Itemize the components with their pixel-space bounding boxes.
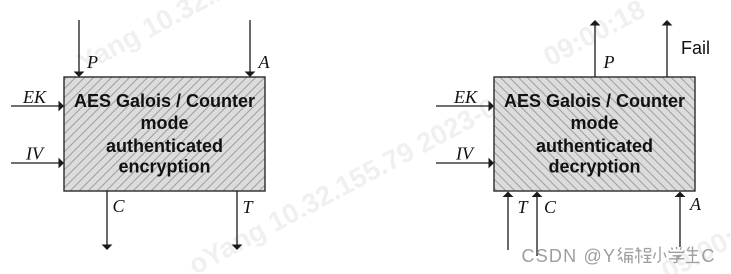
- svg-text:IV: IV: [455, 144, 475, 164]
- arrow IV input (right box): [436, 158, 494, 169]
- svg-text:authenticated: authenticated: [536, 136, 653, 156]
- svg-text:C: C: [113, 196, 126, 216]
- arrow IV input (left box): [11, 158, 64, 169]
- svg-text:T: T: [518, 197, 530, 217]
- arrow P input (left box top): [74, 20, 85, 77]
- arrow T input (right box bottom, upward): [503, 192, 514, 251]
- svg-text:09:00:18: 09:00:18: [538, 0, 650, 72]
- svg-text:P: P: [603, 52, 615, 72]
- svg-text:CSDN @Y: CSDN @Y: [522, 246, 617, 266]
- CSDN watermark hanzi xiao: [654, 247, 667, 263]
- svg-text:authenticated: authenticated: [106, 136, 223, 156]
- svg-text:mode: mode: [140, 113, 188, 133]
- svg-text:AES Galois / Counter: AES Galois / Counter: [74, 91, 255, 111]
- arrow A input (right box bottom, upward): [675, 192, 686, 248]
- CSDN watermark hanzi bian: [618, 248, 634, 264]
- box U2 AES-GCM decryption: [494, 77, 695, 191]
- arrow T output (left box bottom): [232, 191, 243, 250]
- arrow A input (left box top): [245, 20, 256, 77]
- svg-text:mode: mode: [570, 113, 618, 133]
- svg-text:EK: EK: [22, 87, 47, 107]
- arrow EK input (left box): [11, 101, 64, 112]
- CSDN watermark hanzi cheng: [635, 248, 651, 264]
- svg-text:EK: EK: [453, 87, 478, 107]
- svg-text:encryption: encryption: [118, 157, 210, 177]
- CSDN watermark hanzi sheng: [686, 247, 700, 263]
- arrow P output (right box top, upward): [590, 20, 601, 77]
- box U1 AES-GCM encryption: [64, 77, 265, 191]
- svg-text:AES Galois / Counter: AES Galois / Counter: [504, 91, 685, 111]
- svg-text:decryption: decryption: [548, 157, 640, 177]
- svg-text:IV: IV: [25, 144, 45, 164]
- svg-text:T: T: [243, 197, 255, 217]
- svg-text:09:00:1: 09:00:1: [656, 214, 731, 274]
- svg-text:A: A: [258, 52, 271, 72]
- svg-text:A: A: [689, 194, 702, 214]
- arrow C input (right box bottom, upward): [532, 192, 543, 257]
- CSDN watermark hanzi xue: [669, 247, 684, 263]
- arrow EK input (right box): [436, 101, 494, 112]
- svg-text:C: C: [702, 246, 715, 266]
- svg-text:C: C: [544, 197, 557, 217]
- arrow C output (left box bottom): [102, 191, 113, 250]
- arrow Fail output (right box top, upward): [662, 20, 673, 77]
- svg-text:P: P: [86, 52, 98, 72]
- svg-text:Fail: Fail: [681, 38, 710, 58]
